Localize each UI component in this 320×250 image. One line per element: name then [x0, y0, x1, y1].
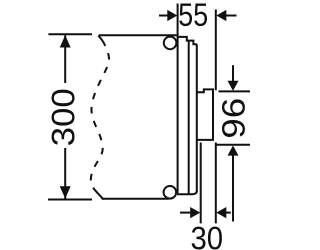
dim30 tail right: [226, 212, 231, 214]
label 30: [192, 227, 222, 250]
dim96 arrow up: [228, 146, 239, 156]
bar top edge: [99, 34, 177, 36]
label 96 (rotated): [222, 99, 245, 137]
wall line upper: [215, 10, 217, 91]
label 55: [179, 4, 207, 27]
dim300 arrow up: [60, 35, 71, 47]
dim96 bottom tick: [217, 144, 251, 146]
bar bottom edge: [103, 198, 169, 200]
break line (dashed wavy): [91, 36, 109, 200]
holder bracket outline: [197, 89, 213, 139]
label 300 (rotated): [52, 90, 75, 145]
dim55 tail right: [226, 15, 237, 17]
dim30 arrow left: [216, 207, 226, 218]
dim96 top tick: [219, 90, 251, 92]
dim55 left extension / bar front face: [177, 4, 179, 194]
bar bottom back edge: [177, 191, 197, 194]
dim300 top tick: [48, 33, 92, 35]
dim96 line lower: [232, 155, 234, 222]
dim55 arrow left: [216, 10, 226, 21]
dim96 arrow down: [228, 81, 239, 91]
top end cap circle: [164, 37, 177, 50]
dim30 arrow right: [190, 207, 200, 218]
dim300 bottom tick: [48, 199, 92, 201]
dim300 line upper: [64, 35, 66, 83]
wall line lower: [215, 143, 217, 224]
dim300 line lower: [64, 148, 66, 199]
bar back face: [196, 44, 198, 192]
dim55 arrow right: [167, 10, 177, 21]
bar top step profile: [178, 37, 197, 44]
dim96 line upper: [232, 65, 234, 82]
dim30 left extension: [200, 143, 202, 224]
bottom end cap circle: [164, 186, 177, 199]
dim300 arrow down: [60, 186, 71, 198]
bar middle contour line: [188, 41, 190, 194]
dim30 tail left: [180, 212, 191, 214]
dim55 tail left: [159, 15, 169, 17]
